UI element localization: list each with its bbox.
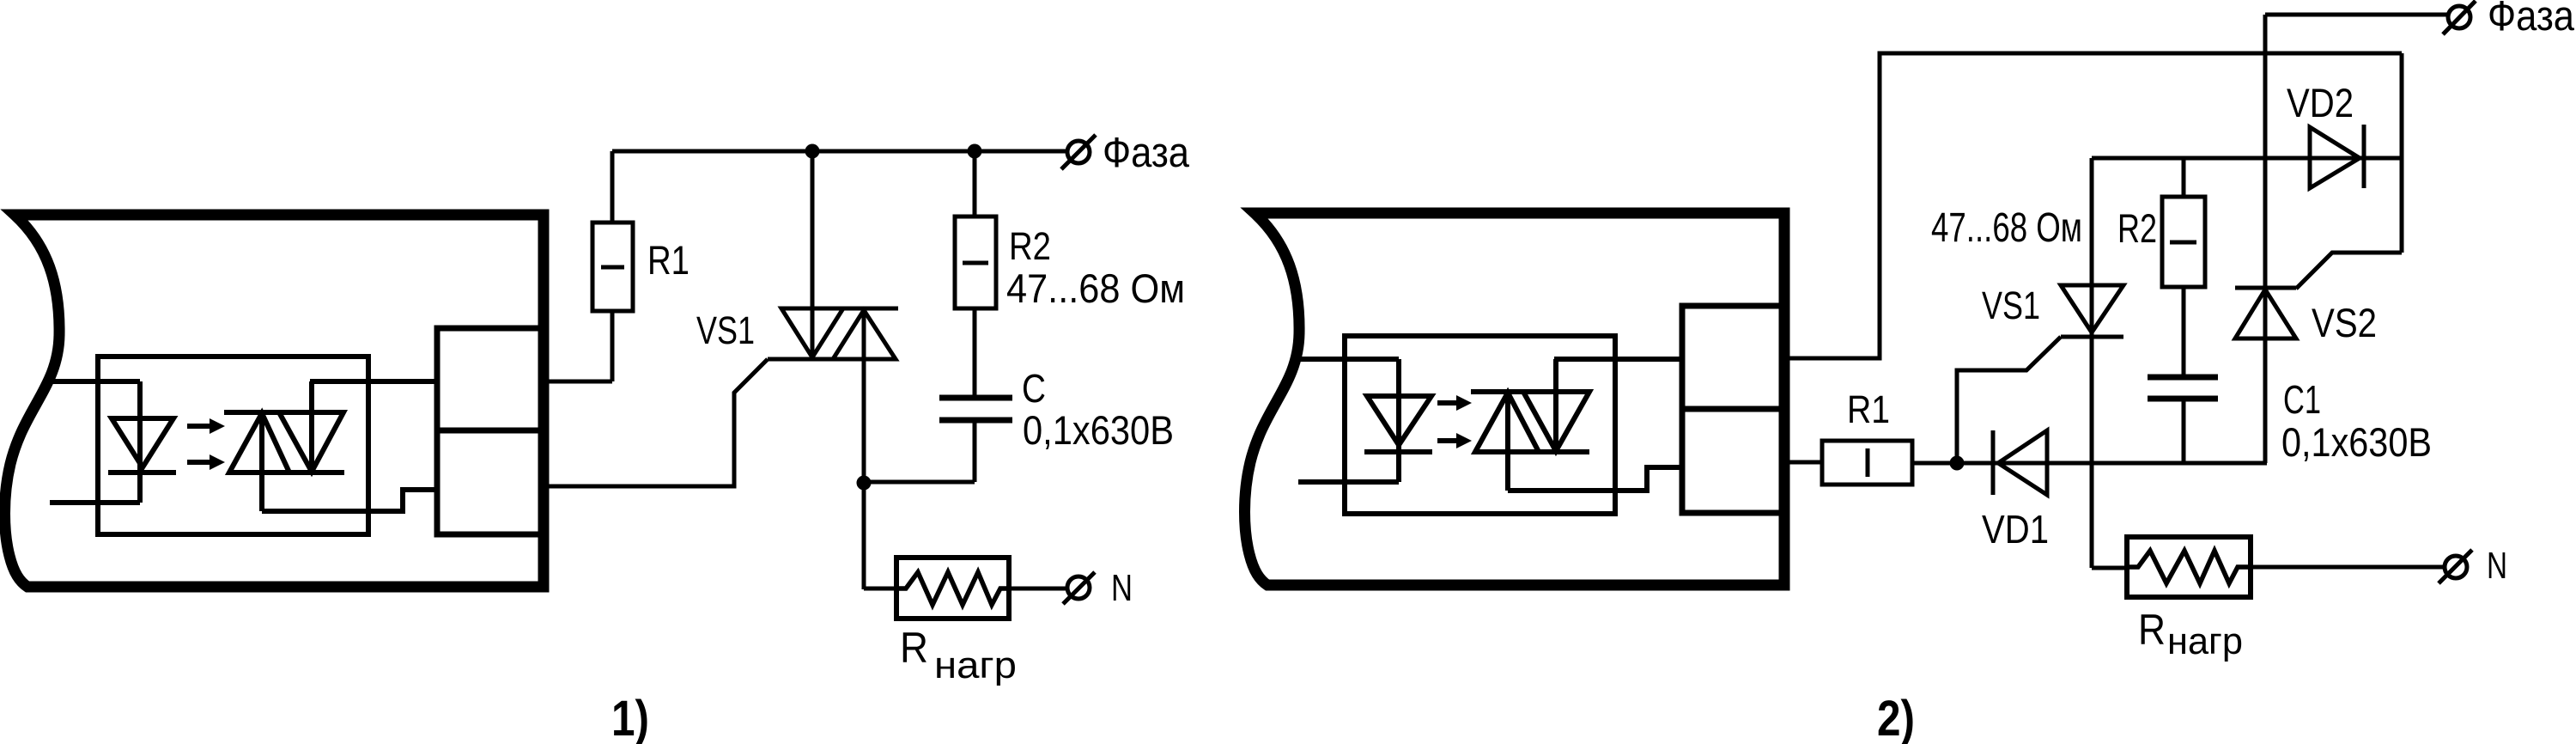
wire VS1 bottom lead	[862, 308, 866, 589]
wire Фаза rail circuit 2	[2265, 13, 2447, 17]
wire Фаза vertical circuit 2	[2263, 15, 2268, 463]
svg-text:нагр: нагр	[2167, 620, 2243, 662]
resistor Rнагр load circuit 2	[2127, 537, 2251, 597]
svg-text:R1: R1	[1847, 387, 1890, 431]
wire VS1 gate circuit 2	[1957, 337, 2061, 463]
wire VS1 lead circuit 2	[2090, 158, 2094, 568]
connector divider	[437, 428, 542, 434]
junction dot rail-VS1	[805, 144, 820, 159]
wire VD2 cathode down to VS2 gate	[2400, 53, 2404, 253]
svg-text:47...68 Ом: 47...68 Ом	[1931, 205, 2082, 251]
wire VS2 bottom lead	[2263, 338, 2268, 463]
capacitor C top plate	[939, 395, 1012, 401]
photo-triac left triangle	[229, 413, 289, 473]
terminal Фаза circuit 2	[2443, 1, 2476, 34]
wire R1 top lead	[611, 151, 615, 223]
device module box 2 (torn edge)	[1245, 213, 1785, 585]
svg-text:2): 2)	[1877, 691, 1915, 744]
photo-triac 2 left triangle	[1475, 393, 1539, 452]
svg-text:VS2: VS2	[2312, 300, 2377, 345]
wire photo-triac 2 bottom lead	[1505, 393, 1510, 491]
wire VS1 to Rнагр circuit 2	[2092, 566, 2127, 570]
junction dot R1-VD1-gate	[1950, 456, 1965, 471]
wire photo-triac top lead	[309, 381, 314, 472]
svg-text:R1: R1	[647, 237, 690, 283]
wire R2 top lead	[973, 151, 977, 216]
wire upper output of module 2	[1783, 53, 2402, 358]
terminal N	[1063, 572, 1095, 604]
svg-text:VD1: VD1	[1982, 507, 2049, 552]
svg-text:R: R	[900, 624, 928, 672]
svg-text:Фаза: Фаза	[2488, 0, 2575, 40]
wire photo-triac 2 to connector top	[1554, 357, 1682, 362]
wire bottom rail circuit 2	[1957, 461, 2267, 466]
wire lower output of module 2 to R1	[1783, 460, 1822, 465]
wire C bottom lead	[973, 420, 977, 482]
connector 2 divider	[1682, 406, 1783, 412]
wire photo-triac 2 to connector bottom step	[1508, 467, 1682, 491]
wire photo-triac bottom lead	[259, 413, 264, 511]
svg-text:нагр: нагр	[934, 644, 1017, 686]
wire LED lead vertical	[137, 381, 143, 503]
wire Rнагр to N	[1009, 587, 1068, 591]
wire VS1 top lead	[811, 151, 815, 357]
resistor R2 circuit 2	[2162, 197, 2205, 287]
LED cathode bar	[108, 470, 176, 475]
wire photo-triac 2 top lead	[1553, 359, 1558, 451]
diode VD2 cathode bar	[2362, 125, 2366, 188]
photo-triac 2 right triangle	[1523, 392, 1589, 451]
photo-triac top bar	[224, 410, 344, 415]
LED2 cathode bar	[1364, 449, 1432, 454]
wire VD2 anode rail	[2092, 156, 2402, 161]
triac VS1 top bar	[781, 307, 898, 311]
svg-text:N: N	[1111, 567, 1133, 609]
wire photo-triac to connector top	[310, 379, 437, 384]
wire top rail Фаза	[612, 149, 1066, 154]
svg-text:C1: C1	[2283, 377, 2321, 422]
diode VD2 triangle	[2310, 127, 2360, 188]
junction dot VS1-C-Rнагр	[857, 476, 872, 491]
photo-triac 2 top bar	[1471, 389, 1589, 394]
resistor Rнагр load	[896, 558, 1009, 619]
resistor R1 circuit 2	[1822, 441, 1912, 485]
light arrow 1	[187, 418, 225, 434]
svg-text:1): 1)	[611, 691, 649, 744]
wire Rнагр to N circuit 2	[2251, 565, 2444, 570]
wire R1 bottom lead	[611, 311, 615, 381]
light arrow 3	[1437, 395, 1472, 411]
thyristor VS1 circuit 2 bar	[2061, 335, 2123, 339]
svg-text:R2: R2	[2117, 205, 2157, 251]
wire C to junction	[864, 480, 975, 485]
connector block 2	[1682, 306, 1783, 513]
svg-text:0,1х630В: 0,1х630В	[2281, 419, 2432, 465]
wire LED2 lead vertical	[1396, 359, 1401, 482]
svg-text:VS1: VS1	[1982, 284, 2040, 327]
svg-text:VS1: VS1	[696, 308, 755, 352]
capacitor C bottom plate	[939, 418, 1012, 424]
LED2 of optocoupler	[1367, 396, 1431, 445]
wire LED2 anode	[1298, 357, 1399, 362]
wire lower output to VS1 gate	[541, 359, 768, 486]
optocoupler inner box 2	[1345, 336, 1615, 514]
wire C1 bottom lead	[2182, 399, 2186, 462]
wire LED anode	[50, 379, 140, 384]
thyristor VS2 bar	[2235, 286, 2296, 290]
wire junction to Rнагр	[864, 587, 896, 591]
triac VS1 left triangle	[781, 308, 843, 357]
thyristor VS2 triangle	[2235, 290, 2296, 338]
svg-text:N: N	[2487, 545, 2507, 587]
connector block	[437, 328, 542, 534]
wire upper output to R1	[541, 380, 612, 384]
wire photo-triac to connector bottom step	[262, 490, 437, 511]
wire LED2 cathode	[1298, 479, 1399, 485]
diode VD1 cathode bar	[1991, 430, 1996, 495]
svg-text:C: C	[1022, 366, 1046, 411]
light arrow 2	[187, 454, 225, 470]
photo-triac 2 bottom bar	[1475, 449, 1589, 454]
LED of optocoupler	[112, 418, 173, 467]
wire VS2 gate	[2296, 253, 2402, 289]
wire R2 top lead circuit 2	[2182, 158, 2186, 197]
device module box (torn edge)	[5, 215, 544, 587]
triac VS1 right triangle	[833, 310, 896, 359]
capacitor C1 bottom plate	[2148, 396, 2218, 402]
wire R2 bottom lead circuit 2	[2182, 287, 2186, 377]
svg-text:R2: R2	[1009, 224, 1051, 268]
svg-text:R: R	[2138, 606, 2166, 654]
resistor R1	[592, 223, 633, 311]
capacitor C1 top plate	[2148, 375, 2218, 381]
terminal N circuit 2	[2439, 550, 2472, 583]
photo-triac bottom bar	[229, 470, 344, 475]
svg-text:VD2: VD2	[2287, 80, 2354, 125]
optocoupler U1 inner box	[98, 357, 368, 534]
triac VS1 bottom bar	[768, 357, 896, 362]
svg-text:Фаза: Фаза	[1103, 130, 1190, 176]
photo-triac right triangle	[279, 412, 343, 472]
wire R2 bottom lead	[973, 308, 977, 398]
wire R1 to junction	[1912, 461, 1957, 466]
light arrow 4	[1437, 433, 1472, 448]
svg-text:0,1х630В: 0,1х630В	[1023, 407, 1174, 453]
svg-text:47...68 Ом: 47...68 Ом	[1006, 265, 1185, 311]
thyristor VS1 circuit 2 triangle	[2061, 285, 2123, 332]
junction dot rail-R2	[968, 144, 982, 159]
terminal Фаза	[1061, 135, 1096, 169]
wire LED cathode	[50, 500, 140, 505]
diode VD1 triangle	[1998, 430, 2047, 495]
resistor R2	[955, 216, 996, 308]
